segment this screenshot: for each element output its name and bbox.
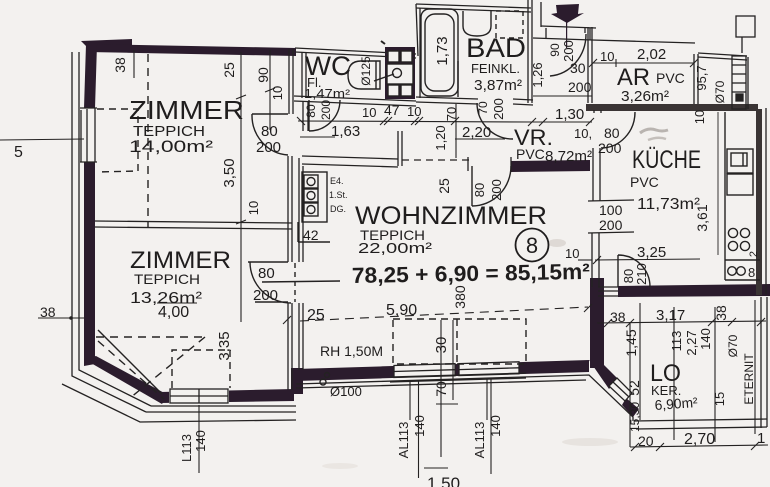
- dim stub 10 at wohn right: [578, 259, 592, 261]
- leader line left edge with 5: [0, 139, 84, 140]
- exterior face line left inner: [79, 52, 151, 406]
- svg-text:20: 20: [638, 433, 654, 449]
- tick at window center: [436, 403, 458, 405]
- door zimmer2 dashed jamb: [294, 263, 296, 302]
- wall: kitchen bottom wall: [618, 284, 770, 297]
- svg-text:90: 90: [548, 43, 562, 57]
- svg-text:80: 80: [604, 125, 620, 141]
- box 8 lines: [725, 259, 760, 261]
- loggia left dim vertical x630: [629, 322, 631, 447]
- entry top wall: [541, 26, 596, 28]
- dim line 1,30 vr: [532, 121, 592, 123]
- svg-text:10: 10: [600, 49, 614, 64]
- svg-text:80: 80: [472, 183, 487, 197]
- dim line 38 left: [38, 317, 84, 319]
- dim tick line beside 38 rotated top: [133, 50, 135, 78]
- wall: bottom-left chamfer wall: [84, 356, 168, 404]
- wall: VR / wohnzimmer partition bar: [511, 160, 590, 172]
- kitchen left wall between door and pass: [592, 148, 594, 201]
- svg-text:80: 80: [261, 123, 278, 140]
- kitchen 3,61 dim vertical: [717, 112, 719, 255]
- faint pencil smudge kitchen: [640, 129, 668, 133]
- dashed window niche zimmer2: [172, 350, 230, 388]
- shaft vent circle: [393, 69, 402, 78]
- svg-text:WOHNZIMMER: WOHNZIMMER: [355, 202, 547, 230]
- exterior face lines below wohnzimmer: [296, 375, 633, 421]
- wall: zimmer2 bottom wall: [160, 389, 294, 403]
- svg-text:25: 25: [307, 307, 325, 324]
- dashed window niche zimmer1: [97, 109, 138, 172]
- svg-text:140: 140: [193, 430, 208, 452]
- svg-text:38: 38: [112, 57, 128, 73]
- loggia right parapet double line: [760, 297, 762, 428]
- svg-text:30: 30: [570, 60, 586, 76]
- svg-text:8: 8: [526, 233, 538, 258]
- phi100 circle marks: [325, 373, 330, 378]
- svg-text:10: 10: [692, 110, 707, 124]
- dashed dim line 5,90 wohnzimmer: [300, 307, 588, 321]
- door arc entry: [550, 34, 586, 76]
- svg-text:1,45: 1,45: [623, 329, 639, 356]
- wall: chamfer wohnzimmer to loggia: [589, 360, 618, 389]
- kitchen right outer line: [765, 108, 767, 294]
- svg-text:ZIMMER: ZIMMER: [129, 95, 244, 125]
- svg-text:RH 1,50M: RH 1,50M: [320, 343, 383, 359]
- svg-text:Ø125: Ø125: [359, 56, 373, 86]
- svg-text:E4.: E4.: [330, 176, 344, 186]
- bad bottom wall double: [416, 97, 478, 99]
- shaft white insets: [388, 51, 399, 62]
- bad interior line at tub foot: [457, 61, 459, 97]
- wc bottom wall double: [294, 96, 416, 101]
- loggia mid dim verticals: [673, 307, 675, 440]
- window zimmer2 bottom wall: white gap with frame: [169, 388, 229, 405]
- wohnzimmer window 2: white gap: [459, 362, 519, 376]
- wc top wall band: [295, 48, 416, 54]
- corridor left wall double: [302, 101, 304, 131]
- faint smudge near wohn right wall: [548, 239, 566, 247]
- svg-text:90: 90: [255, 67, 271, 83]
- door arc zimmer2: [248, 262, 291, 303]
- AR left wall: [587, 27, 589, 103]
- svg-text:KÜCHE: KÜCHE: [632, 146, 701, 174]
- svg-text:200: 200: [561, 40, 576, 62]
- svg-text:ZIMMER: ZIMMER: [130, 247, 231, 274]
- arrow tip leader line: [566, 22, 567, 48]
- door gap frame lines at VR door: [467, 157, 469, 171]
- dashed lines zimmer2 corner: [96, 336, 205, 338]
- svg-text:1,26: 1,26: [530, 62, 545, 87]
- kitchen right wall band: [756, 109, 762, 295]
- vertical drop lines from windows: [409, 381, 411, 420]
- svg-text:10: 10: [246, 201, 261, 215]
- loggia door threshold lines: [598, 290, 618, 292]
- dashed vertical zimmer1: [147, 54, 149, 227]
- riser at x398 up to corridor dim line: [397, 131, 399, 166]
- svg-text:78,25 + 6,90 = 85,15m²: 78,25 + 6,90 = 85,15m²: [352, 259, 590, 288]
- kitchen left wall upper (door flanks): [593, 110, 595, 113]
- vertical pair lines x441/x453 (30/70 chain): [440, 320, 442, 457]
- entry dim marks: [533, 95, 592, 97]
- faint streak bottom center: [562, 438, 618, 446]
- door arc zimmer1: [252, 114, 288, 155]
- wall: wohnzimmer bottom wall: [296, 360, 589, 381]
- svg-text:210: 210: [634, 263, 649, 285]
- wall: pillar at zimmer2 / wohnzimmer junction: [291, 368, 303, 394]
- panel cell E4: [304, 175, 318, 188]
- svg-text:38: 38: [713, 305, 729, 321]
- svg-text:140: 140: [488, 415, 503, 437]
- kitchen left wall below pass: [591, 233, 593, 287]
- panel 42 notch lines: [297, 222, 299, 242]
- wall: left exterior wall upper (beside zimmer1): [84, 44, 97, 108]
- AR right wall: [693, 54, 695, 104]
- svg-text:1: 1: [757, 430, 765, 447]
- vr 1,20 dim vertical: [455, 104, 457, 158]
- zimmer right wall between doors: [287, 156, 289, 262]
- svg-text:DG.: DG.: [330, 204, 346, 214]
- svg-text:TEPPICH: TEPPICH: [134, 271, 200, 287]
- svg-text:22,00m²: 22,00m²: [358, 240, 432, 257]
- electrical panel box: [302, 172, 327, 222]
- exterior face line below zimmer2 mid: [146, 411, 296, 413]
- svg-text:1,73: 1,73: [434, 36, 451, 65]
- svg-text:10: 10: [565, 246, 579, 261]
- svg-text:1,63: 1,63: [331, 123, 360, 140]
- washbasin bad: [463, 11, 491, 36]
- wohnzimmer top wall double: [302, 156, 398, 159]
- svg-text:70: 70: [444, 107, 459, 121]
- svg-text:80: 80: [304, 104, 318, 118]
- svg-text:11,73m²: 11,73m²: [637, 196, 701, 213]
- bathtub: [421, 9, 458, 96]
- svg-text:95,7: 95,7: [694, 65, 709, 90]
- flue shaft top right: [732, 56, 746, 109]
- svg-text:3,35: 3,35: [216, 331, 233, 360]
- kitchen box 2: [727, 174, 753, 195]
- wall: pillar between wohnzimmer and kitchen (lower): [590, 278, 604, 368]
- svg-text:Ø70: Ø70: [713, 80, 727, 103]
- svg-text:PVC: PVC: [656, 70, 685, 86]
- dim line AR 2,02: [593, 62, 694, 64]
- wall: zimmer1 top wall: [87, 44, 296, 56]
- svg-text:1,50: 1,50: [427, 474, 460, 487]
- svg-text:6,90m²: 6,90m²: [654, 394, 698, 413]
- diagonal solid line zimmer2 chamfer: [98, 330, 162, 394]
- svg-text:70: 70: [476, 101, 490, 115]
- loggia top dim line y322: [597, 321, 766, 323]
- svg-text:200: 200: [568, 79, 592, 95]
- svg-text:AL113: AL113: [472, 422, 487, 459]
- svg-text:140: 140: [698, 328, 713, 350]
- svg-text:8,72m²: 8,72m²: [545, 148, 592, 165]
- bad block top wall: [416, 4, 531, 8]
- dim line 2,20: [455, 138, 505, 140]
- svg-text:10: 10: [362, 105, 376, 120]
- svg-text:2,20: 2,20: [462, 124, 491, 141]
- svg-text:AR: AR: [617, 64, 650, 91]
- dashed parapet window box wohnzimmer: [393, 319, 526, 364]
- svg-text:1.St.: 1.St.: [329, 190, 348, 200]
- svg-text:3,17: 3,17: [656, 307, 685, 324]
- svg-text:47: 47: [384, 102, 400, 118]
- svg-text:200: 200: [491, 98, 506, 120]
- dim vertical line x270 (90/10): [269, 50, 271, 130]
- svg-text:4,00: 4,00: [158, 304, 189, 321]
- pass lintel lines: [588, 200, 634, 201]
- exterior face line left outer: [72, 52, 146, 412]
- svg-text:2,70: 2,70: [684, 431, 715, 448]
- svg-text:10: 10: [270, 86, 285, 100]
- dim vertical line x241 (3,50 / 3,35 chain): [240, 52, 242, 322]
- entrance arrow (filled): [551, 4, 584, 23]
- svg-text:38: 38: [40, 304, 56, 320]
- svg-text:1,47m²: 1,47m²: [304, 86, 351, 101]
- svg-text:1,30: 1,30: [555, 106, 584, 123]
- overline 4,00 zimmer2: [157, 302, 197, 304]
- svg-text:2: 2: [748, 251, 760, 257]
- zimmer right wall (z-side face) upper: [288, 49, 290, 114]
- wall: left exterior wall lower (beside zimmer2): [84, 162, 95, 366]
- bad right wall: [527, 0, 529, 103]
- svg-text:Ø70: Ø70: [726, 334, 740, 357]
- door arc kitchen to loggia: [618, 255, 650, 287]
- wall: kitchen bottom wall left stub: [590, 287, 598, 297]
- svg-text:3,25: 3,25: [637, 244, 666, 261]
- svg-text:FEINKL.: FEINKL.: [471, 61, 520, 76]
- wohnzimmer left wall face (upper): [298, 158, 300, 262]
- svg-text:80: 80: [258, 265, 275, 282]
- wc left wall: [301, 52, 303, 98]
- right wall beside flue: [747, 57, 749, 109]
- svg-text:PVC: PVC: [516, 146, 545, 162]
- svg-text:70: 70: [433, 381, 449, 397]
- leader phi125 to vent: [374, 74, 394, 81]
- zimmer right wall lower: [287, 303, 289, 390]
- dashed lintel over wide opening: [402, 159, 471, 161]
- panel cell DG: [304, 203, 318, 216]
- svg-text:200: 200: [599, 217, 623, 233]
- svg-text:113: 113: [669, 331, 684, 352]
- svg-text:PVC: PVC: [630, 174, 659, 190]
- bad block left wall: [416, 4, 418, 56]
- loggia right dim vertical: [754, 300, 756, 434]
- shaft block between wc and bad: [385, 47, 415, 99]
- svg-text:Ø100: Ø100: [330, 384, 362, 399]
- kitchen top wall band: [586, 104, 758, 111]
- exterior face line below zimmer2 upper: [151, 405, 296, 407]
- door arc bad: [477, 103, 513, 139]
- svg-text:380: 380: [452, 285, 468, 309]
- door arc vr to wohnzimmer: [472, 166, 511, 206]
- loggia bottom parapet double line: [634, 419, 767, 421]
- svg-text:100: 100: [599, 202, 623, 218]
- top-right wall above flue: [698, 53, 747, 56]
- panel cell 1.St: [304, 189, 318, 202]
- small parapet box above top-right wall: [736, 16, 755, 37]
- sink circles: [728, 267, 737, 276]
- svg-text:3,26m²: 3,26m²: [621, 88, 669, 105]
- exterior face line below zimmer2 outer: [62, 384, 296, 422]
- door arc kitchen entry: [601, 112, 635, 148]
- vertical line below zimmer2 window: [198, 405, 200, 473]
- door arc wc: [309, 100, 340, 131]
- bad bottom wall right stub to corner: [513, 99, 533, 100]
- svg-text:200: 200: [489, 179, 504, 201]
- kitchen fridge box: [727, 149, 753, 173]
- svg-text:2,27: 2,27: [684, 330, 699, 355]
- svg-text:ETERNIT: ETERNIT: [742, 353, 756, 405]
- wall: top-left corner notch: [81, 39, 132, 48]
- chamfer window loggia: white band: [609, 378, 632, 401]
- partition zimmer1 / zimmer2 double line: [95, 221, 292, 223]
- underline 1,50 bottom: [424, 467, 448, 469]
- leader line from 80/200 label zimmer2: [262, 281, 340, 282]
- wohnzimmer window 1: white gap: [394, 364, 455, 378]
- entry niche line: [533, 38, 592, 40]
- kitchen counter left edge: [724, 112, 726, 260]
- kitchen bottom door gap frames: [598, 286, 618, 288]
- svg-text:14,00m²: 14,00m²: [129, 137, 213, 156]
- AR top wall: [592, 40, 695, 43]
- wall: loggia bottom-left corner blob: [622, 398, 639, 417]
- svg-text:38: 38: [610, 309, 626, 325]
- svg-text:5,90: 5,90: [386, 302, 417, 319]
- stove burners: [728, 228, 737, 237]
- svg-text:10: 10: [407, 104, 421, 119]
- svg-text:25: 25: [221, 62, 237, 78]
- svg-text:42: 42: [303, 227, 319, 243]
- entry jamb vertical: [540, 2, 542, 27]
- svg-text:BAD: BAD: [466, 33, 526, 63]
- window zimmer1 left wall: white gap with frame: [80, 108, 97, 162]
- circled 8: [516, 229, 549, 262]
- svg-text:25: 25: [436, 178, 452, 194]
- svg-text:8: 8: [748, 265, 755, 280]
- svg-text:L113: L113: [179, 434, 194, 462]
- wohnzimmer left wall face (lower): [298, 303, 300, 370]
- svg-text:5: 5: [14, 144, 23, 161]
- svg-text:2,02: 2,02: [637, 46, 666, 63]
- svg-text:200: 200: [319, 100, 333, 120]
- svg-text:3,87m²: 3,87m²: [474, 77, 522, 94]
- dim line kitchen 3,25: [595, 259, 700, 260]
- window sill lines under wohnzimmer windows: [390, 373, 526, 377]
- svg-text:140: 140: [412, 415, 427, 437]
- svg-text:15,30: 15,30: [628, 402, 642, 432]
- svg-text:1,20: 1,20: [433, 125, 448, 150]
- corridor dim line y121: [298, 121, 533, 122]
- tick above wall near shaft: [381, 41, 385, 44]
- svg-text:15: 15: [712, 392, 727, 406]
- svg-text:200: 200: [598, 140, 622, 156]
- loggia bottom dim line: [630, 445, 768, 447]
- svg-text:30: 30: [433, 337, 450, 354]
- svg-text:AL113: AL113: [396, 422, 411, 459]
- svg-text:200: 200: [253, 287, 278, 304]
- boiler dashed box bad: [496, 11, 523, 38]
- svg-text:52: 52: [626, 380, 642, 396]
- svg-text:200: 200: [256, 139, 281, 156]
- svg-text:3,61: 3,61: [694, 204, 710, 231]
- underline 1,63: [300, 136, 335, 138]
- toilet wc: [348, 61, 380, 89]
- svg-text:10,: 10,: [574, 126, 592, 141]
- svg-text:3,50: 3,50: [221, 158, 238, 187]
